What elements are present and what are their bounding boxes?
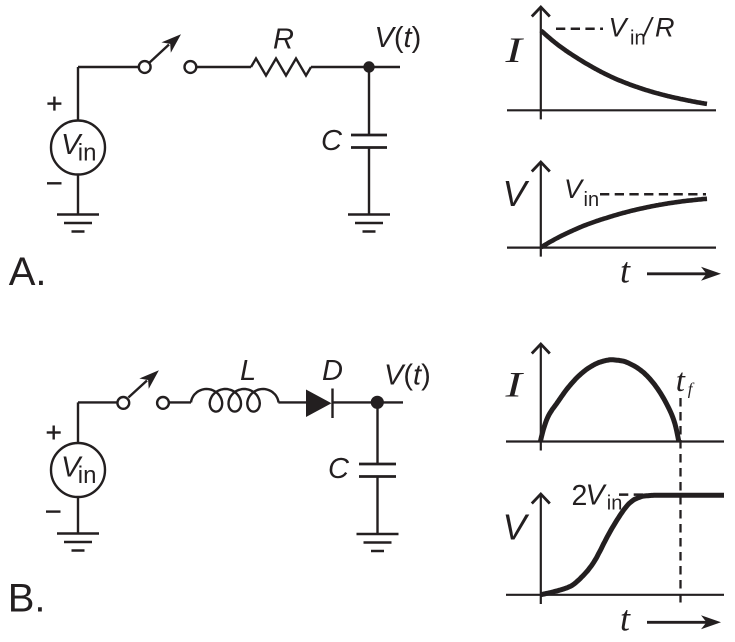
svg-text:V: V [503,507,530,548]
svg-text:in: in [78,462,97,489]
svg-text:V: V [564,174,585,204]
svg-text:t: t [620,599,631,639]
svg-text:V(t): V(t) [384,360,431,392]
svg-text:in: in [607,492,623,514]
svg-text:I: I [504,30,525,70]
svg-text:A.: A. [9,250,47,294]
svg-text:in: in [584,189,600,211]
svg-text:B.: B. [8,577,46,621]
svg-text:R: R [273,24,294,56]
svg-text:C: C [328,453,350,485]
svg-text:L: L [240,355,256,387]
svg-text:C: C [321,125,343,157]
svg-text:in: in [78,140,97,167]
svg-text:D: D [322,355,343,387]
svg-text:V(t): V(t) [375,22,422,54]
svg-text:t: t [620,251,631,291]
svg-text:V: V [503,173,530,214]
svg-text:R: R [655,12,675,42]
svg-text:V: V [586,479,608,511]
svg-text:V: V [609,12,630,42]
svg-text:t: t [676,363,686,399]
svg-text:I: I [504,364,525,404]
